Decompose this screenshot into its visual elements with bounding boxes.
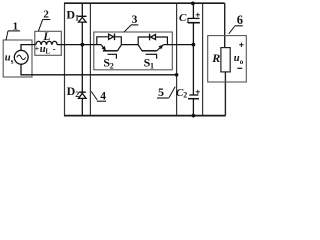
svg-text:6: 6 (237, 13, 243, 27)
svg-text:L: L (42, 31, 50, 43)
svg-text:2: 2 (75, 90, 79, 99)
svg-text:L: L (45, 48, 50, 56)
svg-text:2: 2 (183, 91, 187, 100)
svg-text:1: 1 (13, 21, 19, 33)
svg-text:4: 4 (100, 90, 106, 102)
svg-text:s: s (11, 57, 14, 65)
svg-text:-: - (53, 44, 56, 54)
svg-text:2: 2 (43, 8, 49, 20)
svg-text:1: 1 (150, 62, 154, 71)
svg-text:1: 1 (186, 16, 190, 25)
svg-text:3: 3 (132, 14, 138, 26)
svg-text:R: R (211, 51, 220, 65)
svg-text:5: 5 (158, 85, 164, 99)
svg-text:o: o (240, 58, 244, 66)
svg-text:1: 1 (75, 14, 79, 23)
svg-text:2: 2 (110, 62, 114, 71)
